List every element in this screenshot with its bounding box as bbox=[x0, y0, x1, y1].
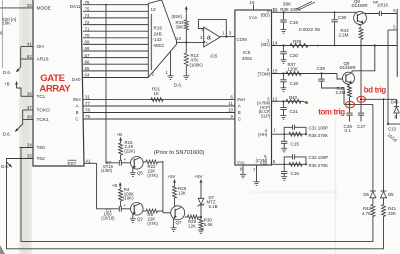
svg-text:31: 31 bbox=[85, 95, 90, 100]
strikethrough slash bbox=[296, 2, 312, 10]
pin 1 stub of DAC with ground bbox=[170, 52, 172, 76]
IC right edge (off page) bbox=[396, 9, 398, 77]
transistor Q5 bbox=[131, 157, 144, 170]
capacitor C20 to ground bbox=[282, 44, 284, 46]
svg-text:22K: 22K bbox=[388, 211, 396, 216]
capacitor C15 to ground bbox=[283, 134, 285, 141]
wire collector bus vertical bbox=[162, 161, 164, 213]
svg-text:A: A bbox=[76, 104, 79, 109]
svg-text:+B: +B bbox=[117, 132, 123, 137]
svg-text:10K: 10K bbox=[2, 21, 10, 26]
svg-text:C31 100P: C31 100P bbox=[309, 125, 329, 130]
resistor R39 on ch1 line bbox=[290, 44, 308, 48]
red circle tom node bbox=[345, 101, 354, 107]
capacitor C19 to ground bbox=[282, 11, 284, 13]
capacitor C1 on Q2 base line bbox=[118, 206, 120, 212]
svg-text:D.6.: D.6. bbox=[3, 132, 11, 137]
svg-text:12K: 12K bbox=[188, 223, 196, 228]
resistor R13 47K to ground bbox=[185, 42, 187, 53]
resistor R22 to collector bus bbox=[143, 161, 146, 163]
pin 35 TG2 bbox=[7, 158, 34, 160]
svg-text:2.2M: 2.2M bbox=[339, 33, 349, 38]
pin 41 OH bbox=[21, 46, 33, 48]
svg-text:COM: COM bbox=[237, 37, 248, 42]
resistor R43 2.2M bbox=[359, 28, 363, 40]
svg-text:R35 270K: R35 270K bbox=[309, 133, 329, 138]
svg-text:(47K): (47K) bbox=[147, 221, 158, 226]
svg-text:A1: A1 bbox=[86, 158, 92, 163]
svg-text:(22K): (22K) bbox=[124, 149, 135, 154]
pin 36 TCL bbox=[21, 95, 33, 97]
svg-text:66: 66 bbox=[85, 59, 90, 64]
svg-text:(1/50): (1/50) bbox=[101, 168, 113, 173]
wire tom line down to D6 bbox=[372, 104, 374, 190]
capacitor C16 to ground bbox=[283, 164, 285, 171]
resistor R37 120K on ch2 line bbox=[286, 72, 301, 76]
resistor R32 39K with +B arrow bbox=[185, 7, 187, 14]
resistor R8 to collector bus bbox=[143, 210, 146, 212]
svg-text:120K: 120K bbox=[288, 66, 298, 71]
wire left edge top bbox=[2, 0, 4, 68]
svg-text:IC5: IC5 bbox=[243, 50, 251, 55]
svg-text:(47K): (47K) bbox=[147, 173, 158, 178]
svg-text:Q7: Q7 bbox=[176, 220, 182, 225]
DAC ladder R19 trapezoid bbox=[148, 0, 176, 77]
svg-text:+B: +B bbox=[112, 183, 118, 188]
wire pins 37-38 bracket to D.6. bbox=[22, 110, 24, 124]
svg-text:DA0: DA0 bbox=[72, 77, 81, 82]
junction ch1/Q9-collector branch bbox=[374, 44, 376, 46]
wire ch1 line bbox=[272, 45, 398, 47]
svg-text:12: 12 bbox=[273, 96, 278, 101]
svg-text:72: 72 bbox=[85, 20, 90, 25]
transistor Q7 bbox=[171, 206, 185, 220]
tom trig node bbox=[349, 97, 351, 104]
svg-text:D5: D5 bbox=[388, 192, 394, 197]
svg-text:Q5: Q5 bbox=[137, 170, 143, 175]
wire pin5 rail down bbox=[387, 30, 389, 124]
capacitor C27 below bd node bbox=[360, 99, 362, 112]
IC5 4051 multiplexer body bbox=[235, 10, 272, 165]
svg-text:16: 16 bbox=[250, 0, 255, 5]
svg-text:(10/16): (10/16) bbox=[101, 215, 115, 220]
resistor R30 5.6K to ground bbox=[199, 216, 202, 218]
resistor R28 12K bbox=[174, 185, 176, 187]
svg-text:(HH): (HH) bbox=[258, 132, 268, 137]
svg-text:+B: +B bbox=[4, 82, 10, 87]
zener diode D7 MTZ 5.1B bbox=[200, 185, 202, 199]
wire ch0 line bbox=[284, 11, 357, 13]
svg-text:(10K): (10K) bbox=[123, 195, 134, 200]
svg-text:IC5: IC5 bbox=[210, 53, 218, 58]
svg-text:D6: D6 bbox=[363, 192, 369, 197]
svg-text:C: C bbox=[238, 117, 241, 122]
svg-text:B: B bbox=[76, 110, 79, 115]
svg-text:D1459R: D1459R bbox=[340, 65, 356, 70]
wire B line pin 78 bbox=[83, 112, 235, 114]
svg-text:62: 62 bbox=[27, 54, 32, 59]
capacitor C32 branch bbox=[284, 157, 292, 164]
wire feedback loop bbox=[198, 19, 226, 36]
svg-text:TCK1: TCK1 bbox=[37, 117, 50, 123]
resistor R42 4.7K bbox=[372, 198, 374, 205]
wire ch3 line bbox=[272, 100, 304, 102]
svg-text:14: 14 bbox=[176, 36, 182, 41]
svg-text:64: 64 bbox=[85, 73, 90, 78]
svg-text:DA11: DA11 bbox=[70, 4, 81, 9]
svg-text:T60: T60 bbox=[37, 145, 46, 151]
svg-text:11: 11 bbox=[228, 101, 233, 106]
svg-text:C32 100P: C32 100P bbox=[309, 155, 329, 160]
svg-text:-142: -142 bbox=[153, 37, 163, 42]
svg-text:10/16: 10/16 bbox=[377, 2, 389, 7]
svg-text:1K: 1K bbox=[154, 91, 159, 96]
Q8 collector to pin 6 with cap 10/16 bbox=[364, 12, 380, 15]
svg-text:15: 15 bbox=[273, 68, 278, 73]
svg-text:68: 68 bbox=[85, 46, 90, 51]
svg-text:D1459R: D1459R bbox=[352, 3, 368, 8]
svg-text:69: 69 bbox=[85, 40, 90, 45]
svg-text:78: 78 bbox=[85, 108, 90, 113]
supply +5V arrow for D7 bbox=[200, 180, 202, 185]
svg-text:38: 38 bbox=[27, 115, 32, 120]
svg-text:D.6.: D.6. bbox=[1, 164, 9, 169]
svg-text:+: + bbox=[124, 203, 127, 208]
pin 34 TG0 bbox=[19, 147, 33, 149]
svg-text:E:: E: bbox=[273, 7, 277, 12]
svg-text:TCKO: TCKO bbox=[37, 108, 51, 114]
capacitor C18 to ground bbox=[282, 72, 284, 74]
capacitor C31 branch bbox=[284, 127, 292, 134]
wire op-amp output to COM pin 3 bbox=[220, 36, 235, 38]
pin 38 TCK1 bbox=[23, 119, 33, 121]
svg-text:MODE: MODE bbox=[37, 6, 51, 12]
svg-text:65: 65 bbox=[85, 66, 90, 71]
wire A1 down to Q2 stage bbox=[97, 163, 119, 209]
svg-text:+: + bbox=[124, 157, 127, 162]
svg-text:24B: 24B bbox=[154, 31, 162, 36]
pin 16 VDD bbox=[253, 5, 255, 11]
svg-text:SS: SS bbox=[240, 161, 244, 165]
svg-text:OH: OH bbox=[37, 44, 45, 50]
svg-text:B: B bbox=[238, 110, 241, 115]
svg-text:10: 10 bbox=[228, 108, 233, 113]
svg-text:(100K): (100K) bbox=[190, 62, 204, 67]
svg-text:SLP]: SLP] bbox=[261, 114, 270, 119]
resistor R36 on ch5 line bbox=[289, 162, 302, 166]
supply +B arrow for R4 bbox=[119, 183, 121, 189]
svg-text:C20: C20 bbox=[290, 53, 299, 58]
svg-text:5.1B: 5.1B bbox=[209, 204, 218, 209]
svg-text:DD: DD bbox=[252, 16, 257, 20]
svg-text:D.6.: D.6. bbox=[3, 70, 11, 75]
resistor R45 2.2M bbox=[348, 86, 352, 97]
svg-text:35: 35 bbox=[27, 154, 32, 159]
op-amp IC5 buffer bbox=[204, 27, 220, 47]
wire A line pin 77 bbox=[83, 105, 235, 107]
red circle bd node bbox=[357, 96, 366, 102]
wire op-amp + input bbox=[204, 41, 205, 44]
resistor R21 1K on INH line bbox=[151, 98, 163, 102]
wire ch4 line bbox=[272, 133, 285, 135]
transistor Q8 bbox=[354, 12, 367, 25]
svg-text:R40: R40 bbox=[289, 95, 298, 100]
diode D6 bbox=[370, 192, 376, 198]
svg-text:4.7K: 4.7K bbox=[362, 211, 371, 216]
svg-text:58K: 58K bbox=[283, 2, 292, 7]
resistor R29 12K bbox=[185, 216, 188, 218]
svg-text:-WE2: -WE2 bbox=[153, 43, 165, 48]
svg-text:34: 34 bbox=[27, 143, 32, 148]
svg-text:76: 76 bbox=[85, 0, 90, 5]
transistor Q2 bbox=[131, 203, 144, 216]
svg-text:4051: 4051 bbox=[242, 56, 253, 61]
svg-text:C27: C27 bbox=[357, 124, 366, 129]
diode D5 bbox=[381, 192, 387, 198]
wire R43 down to bd node bbox=[360, 40, 362, 100]
svg-text:2.2M: 2.2M bbox=[336, 90, 346, 95]
wire bd line down to D5 bbox=[383, 99, 385, 190]
svg-text:2: 2 bbox=[152, 72, 155, 77]
svg-text:(82K): (82K) bbox=[172, 14, 183, 19]
capacitor C7 on Q5 base line bbox=[118, 160, 120, 166]
svg-text:+5V: +5V bbox=[168, 174, 176, 179]
svg-text:D46: D46 bbox=[391, 100, 399, 105]
svg-text:(BD): (BD) bbox=[261, 13, 271, 18]
wire C line pin 79 bbox=[83, 118, 235, 120]
svg-text:EE: EE bbox=[263, 161, 267, 165]
capacitor C26 below tom node bbox=[349, 104, 351, 112]
svg-text:AR16: AR16 bbox=[37, 57, 49, 63]
svg-text:+5V: +5V bbox=[195, 174, 203, 179]
svg-text:77: 77 bbox=[85, 101, 90, 106]
svg-text:C30: C30 bbox=[338, 15, 347, 20]
resistor R40 on ch3 line bbox=[286, 99, 301, 103]
capacitor C21 to ground bbox=[282, 100, 284, 102]
svg-text:C28: C28 bbox=[317, 66, 326, 71]
svg-text:0.1: 0.1 bbox=[345, 128, 352, 133]
svg-text:TCL: TCL bbox=[37, 94, 46, 100]
resistor R15 2.2K bbox=[120, 142, 122, 143]
wire trigger return inner (TG0) bbox=[21, 148, 373, 242]
pin 62 AR16 bbox=[21, 58, 33, 60]
svg-text:RST: RST bbox=[68, 161, 77, 166]
svg-text:37: 37 bbox=[27, 105, 32, 110]
svg-text:C: C bbox=[75, 117, 78, 122]
svg-text:41: 41 bbox=[27, 42, 32, 47]
svg-text:INH: INH bbox=[73, 97, 81, 102]
svg-text:C15: C15 bbox=[291, 141, 300, 146]
pin 5 stub bbox=[388, 29, 397, 31]
svg-text:5.6K: 5.6K bbox=[204, 222, 213, 227]
resistor R4 100K bbox=[120, 188, 122, 189]
bus DA0-DA11 lines bbox=[83, 4, 148, 6]
svg-text:C19: C19 bbox=[290, 20, 299, 25]
svg-text:INH: INH bbox=[237, 97, 245, 102]
svg-text:36: 36 bbox=[27, 92, 32, 97]
resistor R35 on ch4 line bbox=[289, 132, 302, 136]
svg-text:A: A bbox=[238, 104, 241, 109]
svg-text:75: 75 bbox=[85, 7, 90, 12]
svg-text:12K: 12K bbox=[178, 190, 186, 195]
wire base line to Q7 bbox=[163, 212, 171, 214]
svg-text:C13: C13 bbox=[388, 126, 397, 131]
svg-text:79: 79 bbox=[85, 114, 90, 119]
wire pins 41-62 bracket to D.6. bbox=[20, 47, 22, 68]
svg-text:32: 32 bbox=[27, 3, 32, 8]
IC gate array body bbox=[33, 0, 84, 166]
svg-text:67: 67 bbox=[85, 53, 90, 58]
svg-text:R39: R39 bbox=[293, 39, 302, 44]
wire ch5 line bbox=[272, 163, 285, 165]
wire DA11 tap down to Q5 stage bbox=[106, 5, 119, 163]
svg-text:14: 14 bbox=[273, 41, 278, 46]
Q9 emitter to R45 bbox=[347, 84, 350, 87]
wire trigger return outer (TG2) bbox=[7, 159, 384, 249]
svg-text:70: 70 bbox=[85, 33, 90, 38]
svg-text:T62: T62 bbox=[37, 156, 46, 162]
resistor R41 22K bbox=[383, 198, 385, 205]
Q8 emitter to R43 bbox=[359, 24, 362, 27]
svg-text:0.0022 X5: 0.0022 X5 bbox=[299, 27, 320, 32]
wire TCL to +B arrow bbox=[17, 88, 22, 96]
supply +5V arrow for R28 bbox=[174, 180, 176, 185]
svg-text:[TOM]: [TOM] bbox=[258, 71, 270, 76]
svg-text:74: 74 bbox=[85, 13, 90, 18]
svg-text:C18: C18 bbox=[290, 81, 299, 86]
svg-text:tom trig: tom trig bbox=[318, 108, 345, 117]
transistor Q9 bbox=[343, 72, 355, 84]
diode D46 bbox=[396, 99, 398, 106]
svg-text:C16: C16 bbox=[291, 171, 300, 176]
svg-text:6.: 6. bbox=[0, 31, 4, 36]
svg-text:R36 270K: R36 270K bbox=[309, 163, 329, 168]
wire ch2 line bbox=[272, 73, 338, 75]
DAC ladder internal bar bbox=[150, 14, 152, 70]
svg-text:39K: 39K bbox=[176, 25, 184, 30]
svg-text:Q2: Q2 bbox=[137, 216, 143, 221]
wire INH line pin 31 bbox=[83, 99, 235, 101]
svg-text:bd trig: bd trig bbox=[364, 86, 387, 95]
svg-text:71: 71 bbox=[85, 26, 90, 31]
svg-text:Z: Z bbox=[394, 114, 397, 119]
supply +B arrow for R15 bbox=[120, 138, 122, 143]
capacitor C30 bbox=[334, 11, 336, 13]
svg-text:ARRAY: ARRAY bbox=[39, 83, 71, 94]
svg-text:(Prior to SN701600): (Prior to SN701600) bbox=[154, 150, 205, 156]
capacitor C28 branch bbox=[320, 72, 322, 74]
pin 32 MODE bbox=[0, 7, 33, 9]
bd trig node bbox=[360, 98, 362, 100]
svg-text:C21: C21 bbox=[290, 109, 299, 114]
arrow ch3 line end bbox=[305, 101, 309, 105]
svg-text:D.6.: D.6. bbox=[174, 83, 182, 88]
svg-text:R19: R19 bbox=[154, 26, 163, 31]
svg-text:13: 13 bbox=[151, 7, 157, 12]
svg-text:(SD): (SD) bbox=[261, 42, 271, 47]
pin 37 TCKO bbox=[23, 109, 33, 111]
